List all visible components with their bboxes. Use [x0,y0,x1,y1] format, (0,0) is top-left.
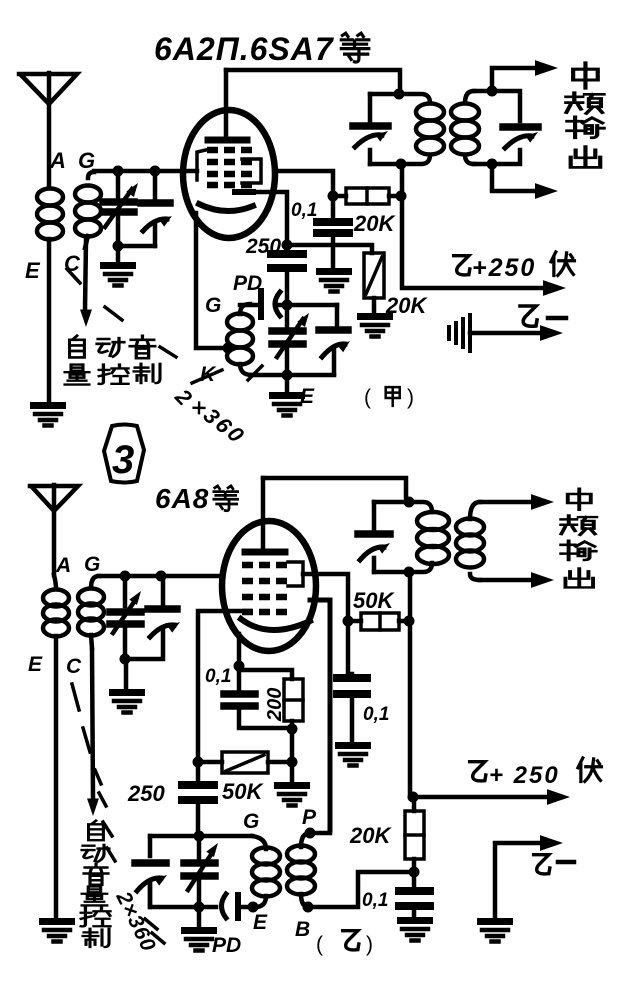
tube V2 screen box [288,562,303,586]
wire cap bottom rail [118,244,155,249]
trimmer capacitor C2 [141,171,174,246]
label 2x360 top rotated [170,383,250,447]
wire grid4 lead down [198,611,250,758]
tube V2 envelope [222,521,316,651]
node T1 sec bottom [487,159,498,170]
label 乙+250伏 top [454,252,575,282]
arrow B+ bottom [413,789,570,805]
tube V1 envelope [183,110,275,238]
ground G7 antenna bottom [39,918,75,942]
ground G1 under tuning caps [100,246,136,286]
ground G11 under C16 [397,917,433,941]
svg-text:+250: +250 [472,254,536,282]
node screen-R5 [343,616,354,627]
svg-text:PD: PD [233,272,262,295]
ground G8 under R4 [274,762,310,806]
node T2 top [404,497,415,508]
svg-text:A: A [55,554,71,577]
ground G2 antenna [30,402,66,426]
dash right of coil [248,366,262,380]
svg-text:0,1: 0,1 [291,200,317,221]
capacitor C16 0.1 output [399,872,430,917]
wire B to 20K node [308,872,410,907]
label K [192,363,222,386]
node tap K [223,343,234,354]
osc tank bottom rail bottom [150,884,216,907]
AVC arrow from C [80,240,92,327]
wire grid rail [94,169,184,174]
capacitor C14 PD bottom [222,894,251,918]
label 乙+250伏 bottom [470,758,602,789]
IF transformer T1 secondary tank [474,91,540,164]
resistor R1 20K horizontal [339,188,397,204]
ground G5 osc [269,375,305,416]
chassis bars 乙- top [449,315,470,351]
svg-text:B: B [295,918,310,941]
label (甲) [364,386,414,409]
IF output arrow bottom [492,164,558,199]
svg-text:250: 250 [245,235,281,258]
IF transformer T1 secondary coil [451,91,479,164]
label 乙- top [520,306,566,326]
wire cathode lead [237,634,242,663]
arrow 乙- top [470,325,563,341]
ground G10 under C15 [335,742,371,766]
svg-text:E: E [25,258,41,283]
IF transformer T2 primary trimmer [358,502,392,572]
svg-text:6A8: 6A8 [155,483,209,514]
svg-text:6A2П.6SA7: 6A2П.6SA7 [154,31,335,67]
svg-text:C: C [66,655,82,678]
node R1-right [396,191,407,202]
node PD coil [248,902,259,913]
svg-text:A: A [49,148,66,173]
capacitor C15 0.1 screen bottom [337,674,367,742]
svg-text:PD: PD [212,934,241,957]
node osc bottom rail [194,902,205,913]
svg-text:0,1: 0,1 [205,666,231,687]
svg-text:50K: 50K [353,588,395,613]
svg-text:0,1: 0,1 [363,704,389,725]
node coil B bottom [303,902,314,913]
capacitor C5 PD [240,291,337,317]
wire tube grid to rail (left) [184,169,197,174]
ground G12 乙- bottom [477,918,513,942]
node osc rail [194,831,205,842]
arrow 乙- bottom [540,835,563,851]
wire node to R2 [287,245,372,253]
tube V1 anode bar [208,137,247,144]
title 6A8等 [155,483,238,514]
node 250-top [282,240,293,251]
dashed gang line bottom [72,684,164,943]
tube V2 cathode arc [241,619,310,630]
resistor R3 200 [239,670,303,758]
capacitor C10 0.1 cathode [224,666,288,728]
capacitor C11 250 bottom [182,762,214,832]
svg-text:G: G [205,294,221,317]
ground G9 osc bottom [181,907,217,951]
tube V2 anode bar [245,549,285,556]
coil L5 osc anode bottom [287,833,315,907]
svg-text:(: ( [364,386,371,409]
osc tank top rail bottom [150,834,252,839]
wire B+ column [402,164,548,288]
tube V1 grid rows [207,150,252,185]
label 中频输出 top [566,63,603,167]
node screen-R1 [328,191,339,202]
IF output arrow top bottom-ckt [480,494,554,510]
badge 3 [104,425,144,483]
wire B+ column bottom [408,572,413,797]
wire E down-lead bottom [54,636,59,918]
svg-text:50K: 50K [222,779,264,804]
label 自动音 AVC row1 [70,336,155,358]
node B+ bottom [408,792,419,803]
node R3 bottom [287,724,298,735]
wire 乙- bottom [495,843,545,918]
cap C3 0.1 screen bypass [317,199,349,268]
svg-text:P: P [302,806,317,829]
node rail-C8 [120,571,131,582]
tube V1 top grid-cap lead [224,70,229,139]
wire plate to T2 [263,478,406,497]
node T1 bottom [396,159,407,170]
coil L1b antenna secondary [75,172,101,248]
node cap-gnd [113,241,124,252]
coil L1a antenna primary [37,189,63,240]
svg-text:+ 250: + 250 [489,762,560,789]
resistor R6 20K bottom [405,797,424,869]
wire cathode to tap [196,213,228,348]
svg-text:G: G [243,810,259,833]
wire E down-lead [47,239,52,402]
tube V1 screen box [242,159,261,183]
svg-text:200: 200 [264,688,286,722]
wire osc-anode to 250 [253,192,287,242]
wire P to anode line [310,831,330,836]
wire grid rail bottom [99,574,222,579]
label 中频输出 bottom [561,489,596,588]
node rail-C9 [156,571,167,582]
tube V1 cathode arc [199,204,253,211]
node R6 bottom [409,867,420,878]
oscillator coil L2 [227,304,253,375]
resistor R4 50K [203,752,287,773]
node rail-C2 [150,166,161,177]
wire tube top to tank [226,70,400,91]
trimmer capacitor C7 osc [319,305,353,374]
resistor R5 50K top [348,613,408,630]
svg-text:E: E [300,385,315,408]
wire screen to node [275,171,333,193]
wire osc anode down [310,600,330,830]
tube V1 osc-anode lead bar [235,189,253,195]
arrow B+ top [543,280,566,296]
label 乙- bottom [534,855,574,874]
antenna ANT2 [30,485,78,575]
title 6A2П.6SA7等 [154,31,369,67]
svg-text:0,1: 0,1 [362,890,388,911]
ground G6 under tuning bottom [109,659,145,713]
svg-text:E: E [253,911,268,934]
tube V1 grid1 bracket [197,149,210,180]
IF output arrow top [492,60,558,91]
node C8 bottom [120,654,131,665]
tube V2 grid rows [242,565,287,612]
label 量控制 AVC row2 [65,364,160,385]
tube V2 top lead [261,478,266,552]
AVC solid arrow bottom [87,650,99,816]
svg-text:2×360: 2×360 [111,887,160,955]
svg-text:): ) [407,386,414,409]
capacitor C4 250 [271,254,303,302]
variable capacitor C8 tuning bottom [110,576,145,655]
IF transformer T2 primary tank [374,502,449,572]
variable capacitor C6 osc [272,305,313,374]
node R4 left [193,757,204,768]
ground G3 under C3 [316,268,352,292]
trimmer capacitor C12 osc bottom [135,836,169,907]
dashed gang line top [67,269,176,357]
node T1 sec top [487,86,498,97]
wire osc bottom rail [252,373,334,378]
svg-text:): ) [366,933,373,956]
variable capacitor C1 tuning [103,171,142,246]
IF transformer T1 primary trimmer [353,94,390,164]
svg-text:C: C [64,251,81,276]
label 自动音量控制 vertical [81,821,110,947]
svg-text:20K: 20K [353,211,396,236]
node osc-top [282,300,293,311]
node coil P top [305,828,316,839]
IF output arrow bottom bottom-ckt [480,572,554,588]
IF transformer T2 secondary coil [456,502,484,580]
node R4 right [287,757,298,768]
node rail-C1 [113,166,124,177]
node cathode [234,661,245,672]
svg-text:250: 250 [127,781,165,806]
svg-text:E: E [28,653,43,676]
antenna ANT1 [19,73,77,185]
svg-text:3: 3 [112,438,134,482]
resistor R2 20K vertical [364,253,384,313]
coil L4 osc grid bottom [252,836,280,907]
coil L3a antenna primary bottom [43,575,69,637]
node T1 top [394,89,405,100]
trimmer capacitor C9 bottom [129,576,182,659]
node R5 right [404,616,415,627]
label (乙) [316,931,373,956]
svg-text:20K: 20K [349,823,392,848]
IF transformer T1 primary tank [370,94,444,164]
ground G4 under R2 [357,313,393,337]
wire screen lead down [303,574,348,672]
svg-text:(: ( [316,933,323,956]
node T2 bottom [404,567,415,578]
variable capacitor C13 osc bottom [184,836,222,903]
node osc bottom [282,370,293,381]
svg-text:G: G [84,553,100,576]
coil L3b antenna secondary bottom [78,576,104,648]
